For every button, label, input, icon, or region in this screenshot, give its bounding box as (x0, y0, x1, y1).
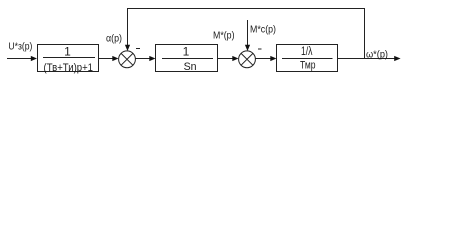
svg-text:M*c(p): M*c(p) (250, 25, 276, 36)
svg-text:ω*(p): ω*(p) (366, 50, 388, 61)
svg-text:(Тв+Ти)р+1: (Тв+Ти)р+1 (44, 62, 94, 74)
svg-text:U*з(p): U*з(p) (8, 42, 32, 53)
svg-text:Тмр: Тмр (300, 60, 316, 72)
svg-text:1/λ: 1/λ (301, 44, 313, 58)
svg-text:1: 1 (183, 45, 190, 59)
svg-text:M*(p): M*(p) (213, 31, 235, 42)
svg-text:α(p): α(p) (106, 34, 122, 45)
svg-text:1: 1 (64, 45, 71, 59)
svg-text:Sn: Sn (184, 61, 197, 73)
